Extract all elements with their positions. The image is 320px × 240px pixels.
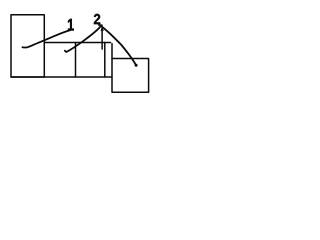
tall building outline <box>11 15 44 77</box>
upper extension of square building left wall <box>111 44 113 59</box>
apex knot under label 2 <box>99 24 102 26</box>
leader line 1 <box>23 30 71 47</box>
leader line 2 right branch <box>101 26 136 65</box>
ground baseline <box>11 76 112 78</box>
leader line 2 vertical branch <box>101 28 103 49</box>
label 1 <box>68 19 74 30</box>
label 2 <box>94 14 100 24</box>
buildings outline diagram with numbered pointers <box>0 0 154 102</box>
leader line 2 left branch <box>65 26 101 52</box>
roof line of low buildings <box>44 42 110 44</box>
arrowhead of vertical branch <box>101 27 104 31</box>
wall divider between low buildings <box>75 43 77 78</box>
right wall of low buildings <box>104 43 106 78</box>
small square building <box>112 59 149 93</box>
arrow tip blob of right branch <box>135 64 138 67</box>
